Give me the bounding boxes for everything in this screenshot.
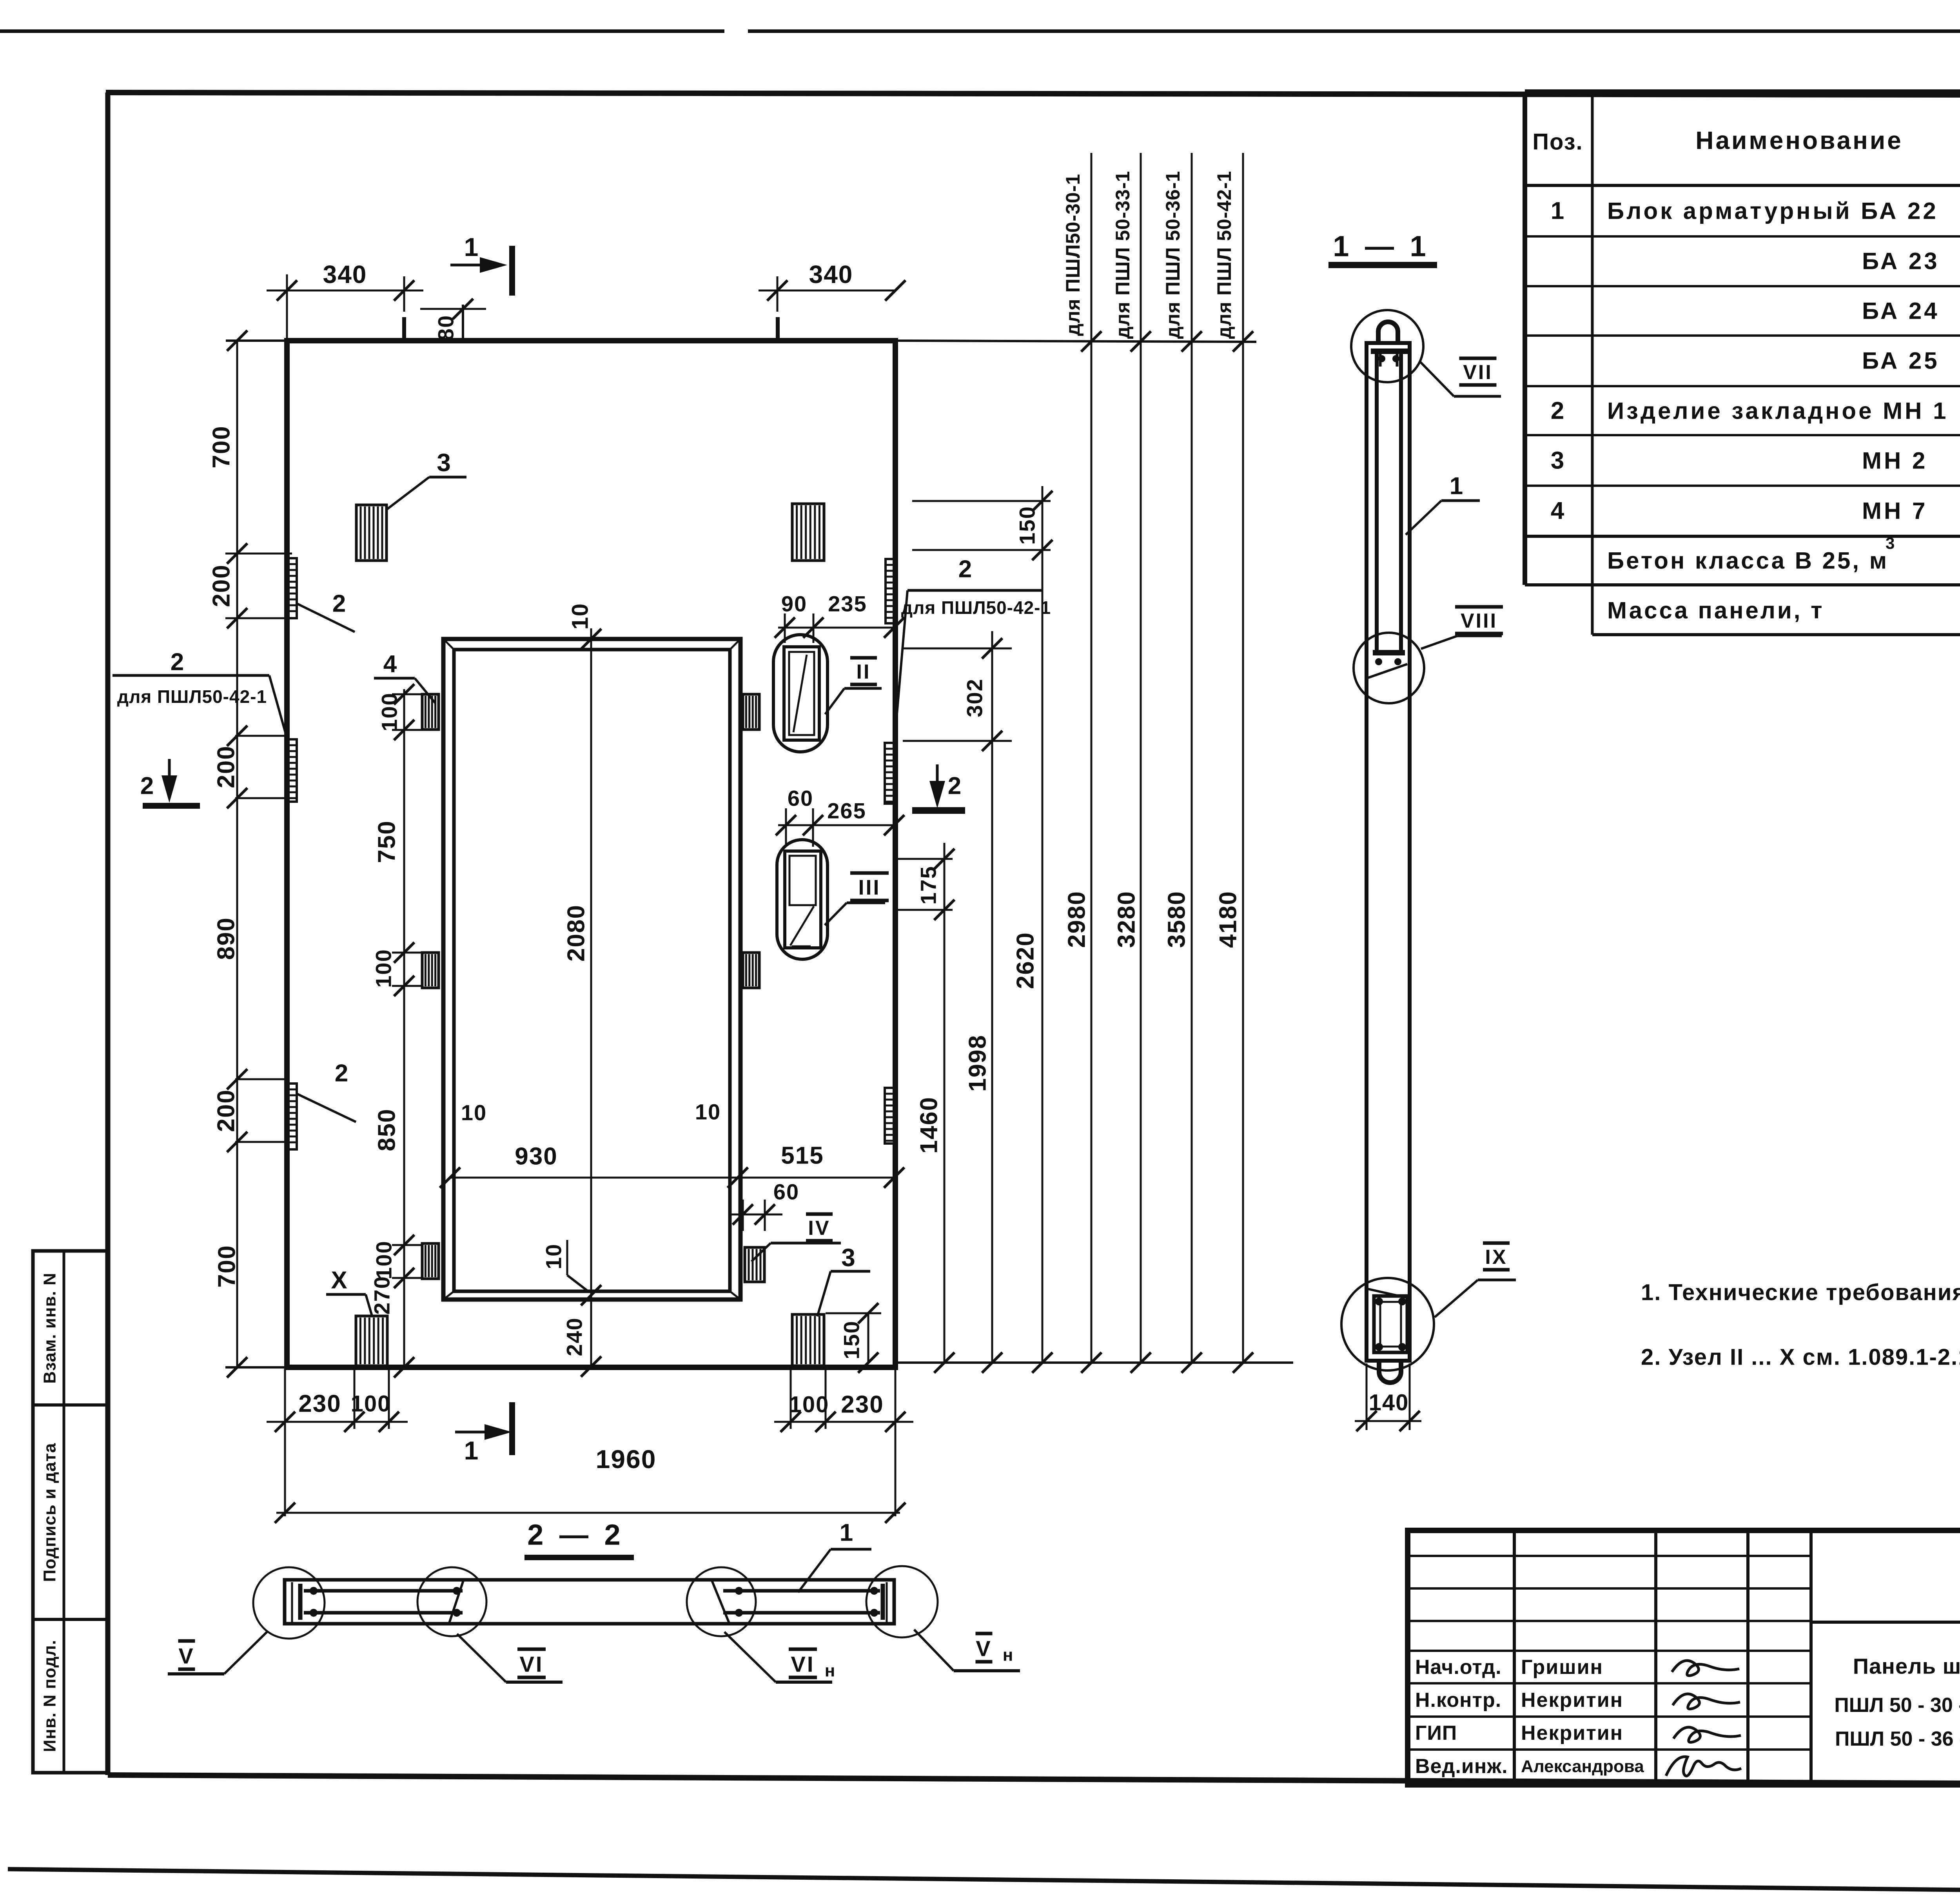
svg-text:2. Узел II ... X см. 1.089: 2. Узел II ... X см. 1.089.1-2.1-1-д .: [1641, 1345, 1960, 1370]
svg-text:Подпись и дата: Подпись и дата: [40, 1443, 60, 1582]
svg-text:Нач.отд.: Нач.отд.: [1415, 1656, 1502, 1679]
svg-text:Масса панели, т: Масса панели, т: [1607, 597, 1824, 624]
svg-text:3: 3: [1551, 447, 1565, 474]
svg-text:Поз.: Поз.: [1532, 129, 1583, 155]
svg-text:МН 7: МН 7: [1862, 498, 1927, 524]
svg-text:V: V: [976, 1636, 992, 1661]
svg-text:Панель шахты лифта: Панель шахты лифта: [1853, 1654, 1960, 1679]
svg-text:340: 340: [809, 260, 853, 289]
svg-text:Вед.инж.: Вед.инж.: [1415, 1755, 1508, 1778]
svg-text:4180: 4180: [1215, 891, 1242, 948]
svg-text:для ПШЛ50-42-1: для ПШЛ50-42-1: [901, 597, 1051, 618]
svg-text:230: 230: [841, 1391, 884, 1418]
svg-text:930: 930: [515, 1143, 557, 1170]
svg-text:2: 2: [335, 1060, 349, 1087]
svg-text:4: 4: [383, 651, 397, 678]
svg-text:240: 240: [562, 1317, 587, 1356]
svg-text:200: 200: [213, 1089, 240, 1132]
svg-text:н: н: [825, 1661, 836, 1681]
svg-text:100: 100: [789, 1392, 829, 1418]
svg-text:100: 100: [372, 1240, 396, 1279]
svg-text:150: 150: [1015, 506, 1040, 545]
svg-text:1998: 1998: [964, 1035, 991, 1092]
svg-text:Блок арматурный БА 22: Блок арматурный БА 22: [1607, 198, 1938, 224]
svg-text:V: V: [178, 1644, 194, 1668]
svg-text:10: 10: [541, 1243, 566, 1269]
svg-text:4: 4: [1551, 497, 1565, 525]
svg-text:БА 25: БА 25: [1862, 348, 1940, 374]
svg-text:10: 10: [695, 1100, 721, 1124]
svg-text:3: 3: [437, 448, 452, 477]
svg-text:80: 80: [434, 315, 458, 341]
svg-text:60: 60: [773, 1180, 799, 1204]
svg-text:1960: 1960: [596, 1445, 657, 1474]
svg-text:Александрова: Александрова: [1521, 1757, 1644, 1776]
svg-text:890: 890: [213, 917, 240, 960]
svg-text:100: 100: [351, 1391, 391, 1417]
svg-text:2: 2: [332, 590, 347, 617]
svg-text:БА 24: БА 24: [1862, 298, 1940, 324]
svg-text:1: 1: [464, 1436, 479, 1465]
svg-text:750: 750: [374, 820, 401, 863]
svg-text:Взам. инв. N: Взам. инв. N: [40, 1272, 60, 1383]
svg-text:2980: 2980: [1063, 891, 1091, 948]
svg-text:1: 1: [1450, 473, 1464, 500]
svg-text:ПШЛ 50 - 30 -1; ПШЛ 50 - 33 -: ПШЛ 50 - 30 -1; ПШЛ 50 - 33 -1;: [1834, 1694, 1960, 1717]
svg-text:для ПШЛ50-30-1: для ПШЛ50-30-1: [1062, 174, 1084, 336]
svg-text:2: 2: [948, 773, 962, 800]
svg-text:850: 850: [374, 1108, 401, 1151]
svg-text:515: 515: [781, 1142, 824, 1169]
svg-text:Инв. N подл.: Инв. N подл.: [40, 1640, 60, 1752]
svg-text:для ПШЛ 50-33-1: для ПШЛ 50-33-1: [1112, 171, 1134, 339]
svg-text:1: 1: [464, 232, 479, 261]
svg-text:н: н: [1003, 1646, 1014, 1665]
svg-text:VI: VI: [520, 1652, 544, 1677]
svg-text:МН 2: МН 2: [1862, 448, 1927, 474]
svg-text:Бетон класса В 25, м: Бетон класса В 25, м: [1607, 548, 1889, 574]
svg-text:100: 100: [371, 949, 396, 987]
svg-text:Гришин: Гришин: [1521, 1656, 1603, 1679]
svg-text:Изделие закладное МН 1: Изделие закладное МН 1: [1607, 398, 1948, 424]
svg-text:2: 2: [171, 649, 185, 676]
svg-text:X: X: [331, 1267, 348, 1294]
svg-text:для ПШЛ 50-42-1: для ПШЛ 50-42-1: [1213, 171, 1235, 339]
svg-text:3580: 3580: [1163, 891, 1191, 948]
svg-text:200: 200: [213, 745, 240, 788]
svg-text:3: 3: [841, 1243, 856, 1272]
svg-text:2: 2: [140, 773, 154, 800]
svg-text:для ПШЛ 50-36-1: для ПШЛ 50-36-1: [1162, 171, 1184, 339]
svg-text:100: 100: [377, 692, 402, 731]
svg-text:3280: 3280: [1113, 891, 1140, 948]
svg-text:700: 700: [208, 425, 235, 468]
svg-text:для ПШЛ50-42-1: для ПШЛ50-42-1: [117, 686, 267, 707]
svg-text:VI: VI: [791, 1652, 815, 1677]
svg-text:340: 340: [323, 260, 367, 289]
svg-text:1: 1: [840, 1519, 854, 1546]
svg-text:ГИП: ГИП: [1415, 1722, 1457, 1744]
svg-text:2080: 2080: [563, 904, 590, 962]
svg-text:2: 2: [958, 556, 973, 583]
svg-text:10: 10: [568, 603, 593, 630]
svg-text:БА 23: БА 23: [1862, 248, 1940, 274]
svg-text:1: 1: [1551, 198, 1565, 225]
svg-text:VIII: VIII: [1461, 610, 1497, 632]
svg-text:2620: 2620: [1012, 932, 1039, 989]
svg-text:2: 2: [1551, 397, 1565, 425]
svg-text:2 — 2: 2 — 2: [527, 1519, 624, 1551]
svg-text:VII: VII: [1463, 361, 1493, 384]
svg-text:270: 270: [370, 1276, 394, 1314]
svg-text:1 — 1: 1 — 1: [1333, 230, 1430, 263]
svg-text:Некритин: Некритин: [1521, 1722, 1623, 1744]
svg-text:150: 150: [839, 1320, 864, 1359]
svg-text:III: III: [858, 876, 880, 899]
svg-text:700: 700: [214, 1245, 241, 1287]
svg-text:235: 235: [828, 592, 867, 616]
svg-text:Н.контр.: Н.контр.: [1415, 1689, 1501, 1712]
svg-text:1460: 1460: [916, 1096, 943, 1154]
svg-text:200: 200: [208, 564, 235, 607]
svg-text:230: 230: [298, 1390, 341, 1418]
svg-text:Наименование: Наименование: [1695, 126, 1903, 154]
svg-text:175: 175: [916, 866, 941, 904]
svg-text:265: 265: [827, 799, 866, 823]
svg-text:1. Технические требования с: 1. Технические требования см. 1.089.1-2.…: [1641, 1280, 1960, 1305]
svg-text:302: 302: [962, 678, 987, 717]
svg-text:II: II: [857, 661, 871, 683]
svg-text:IX: IX: [1485, 1246, 1507, 1269]
svg-text:Некритин: Некритин: [1521, 1689, 1623, 1712]
svg-text:60: 60: [788, 786, 813, 811]
svg-text:IV: IV: [808, 1217, 830, 1240]
svg-text:3: 3: [1886, 534, 1895, 552]
svg-text:ПШЛ 50 - 36 -1; ПШЛ 50 - 42 -: ПШЛ 50 - 36 -1; ПШЛ 50 - 42 -1: [1835, 1728, 1960, 1750]
svg-text:10: 10: [461, 1100, 487, 1125]
svg-text:90: 90: [781, 592, 807, 616]
